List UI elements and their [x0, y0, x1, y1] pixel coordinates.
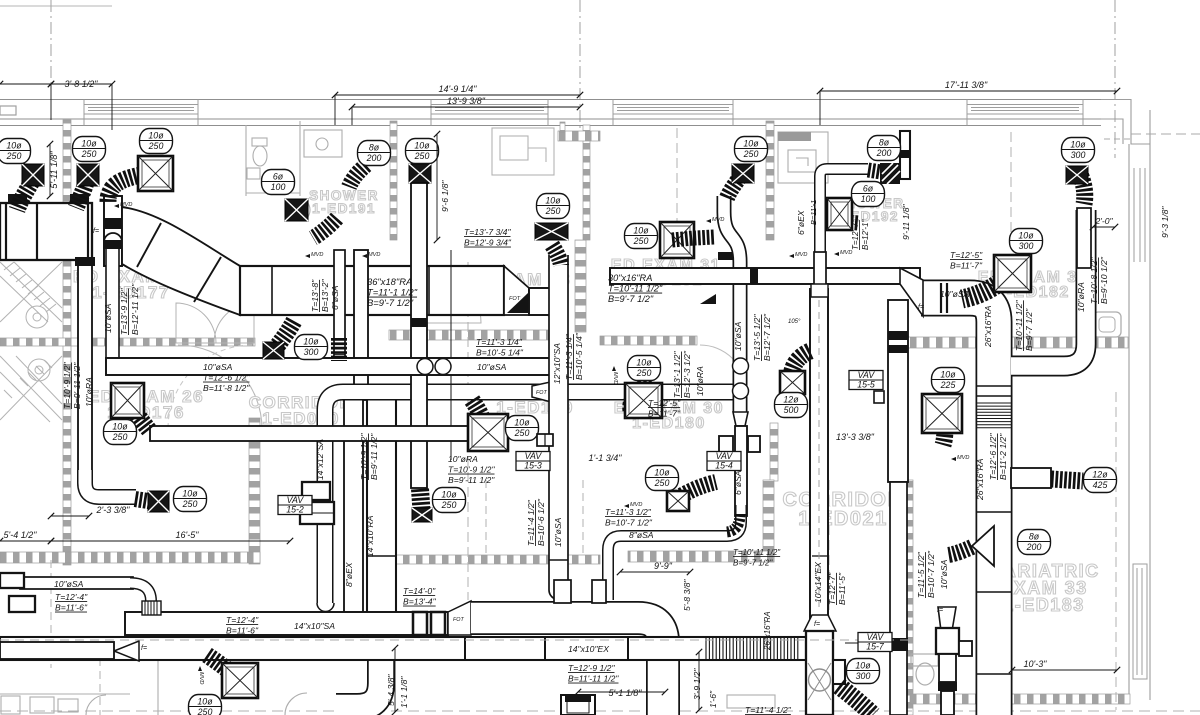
corridor north wall checker exam30 — [600, 336, 697, 345]
dimension vertical 5-4 3/8 and 1-1 1/8 — [394, 648, 396, 712]
svg-text:15-4: 15-4 — [715, 461, 733, 471]
svg-text:T=12'-6 1/2": T=12'-6 1/2" — [203, 373, 250, 383]
svg-text:T=14'-0": T=14'-0" — [403, 586, 436, 596]
svg-text:26"x16"RA: 26"x16"RA — [983, 305, 993, 348]
duct rounded bottom cap west riser — [317, 603, 334, 612]
svg-text:14"x10"SA: 14"x10"SA — [294, 621, 335, 631]
svg-text:B=9'-7 1/2": B=9'-7 1/2" — [1024, 308, 1034, 351]
wall checker vertical exam26 left — [63, 232, 71, 565]
duct line 8EX thin — [450, 250, 452, 460]
svg-text:10"øSA: 10"øSA — [733, 321, 743, 351]
svg-text:B=9'-7 1/2": B=9'-7 1/2" — [367, 297, 414, 308]
svg-text:10'-3": 10'-3" — [1024, 659, 1048, 669]
svg-text:6"øSA: 6"øSA — [330, 285, 340, 310]
bariatric south wall checker — [910, 694, 1130, 704]
dash line bariatric west — [1115, 392, 1117, 710]
duct FOT transition on branch — [532, 381, 555, 403]
svg-text:6"øEX: 6"øEX — [796, 210, 806, 235]
svg-text:1'-6": 1'-6" — [708, 690, 718, 708]
flex corner on 8-SA elbow — [726, 514, 740, 532]
svg-text:10ø: 10ø — [81, 138, 97, 148]
svg-text:200: 200 — [876, 148, 892, 158]
label 10-250 corridor019 — [189, 695, 222, 715]
VAV boxes cluster corridor-west — [302, 482, 330, 500]
duct branch supply with elbow down corridor-west — [325, 392, 736, 604]
svg-text:10"øRA: 10"øRA — [1076, 282, 1086, 312]
label 10-300 exam32 — [1010, 229, 1043, 254]
note rotated 26x16 south — [975, 458, 985, 501]
duct riser 8-EX center — [344, 396, 363, 640]
svg-text:f=: f= — [814, 621, 820, 628]
MVD flag west riser — [305, 252, 323, 258]
note rotated 10RA exam32 — [1076, 282, 1086, 312]
right wall centerline dashes — [1131, 133, 1200, 135]
grid dash corridor center vertical — [467, 262, 469, 600]
svg-text:250: 250 — [633, 236, 649, 246]
svg-text:T=10'-9 1/2": T=10'-9 1/2" — [448, 465, 495, 475]
note exam26 TB — [203, 362, 250, 393]
corridor south wall checker east — [628, 551, 774, 562]
note rotated bariatric T — [916, 551, 926, 598]
corridor double door arcs — [176, 303, 254, 343]
svg-text:B=10'-6 1/2": B=10'-6 1/2" — [536, 498, 546, 546]
svg-text:B=10'-5 1/4": B=10'-5 1/4" — [574, 332, 584, 380]
svg-text:T=12'-6 1/2": T=12'-6 1/2" — [988, 433, 998, 480]
corridor door swing arc into exam26 — [178, 345, 262, 429]
dimension 16-5 — [51, 540, 290, 542]
takeoff triangle bariatric — [972, 526, 994, 566]
note rotated 6SA T — [310, 279, 320, 312]
dimension 5-1 1/8 — [578, 691, 665, 693]
flex exam31 over diffuser edge — [672, 238, 694, 240]
svg-text:13'-9 3/8": 13'-9 3/8" — [447, 96, 486, 106]
room label SHOWER 192 — [829, 196, 904, 224]
crossing hump on riser — [104, 233, 122, 242]
svg-text:T=12'-4": T=12'-4" — [226, 615, 259, 625]
svg-text:B=10'-7 1/2": B=10'-7 1/2" — [605, 518, 653, 528]
svg-text:425: 425 — [1093, 480, 1108, 490]
svg-text:250: 250 — [441, 500, 457, 510]
VAV 15-4 — [707, 451, 741, 470]
svg-text:T=10'-9 1/2": T=10'-9 1/2" — [62, 362, 72, 409]
label 10-250 exam29 — [506, 416, 539, 441]
svg-text:B=9'-11 1/2": B=9'-11 1/2" — [72, 362, 82, 409]
svg-text:10ø: 10ø — [441, 489, 457, 499]
svg-text:5'-11 1/8": 5'-11 1/8" — [49, 151, 59, 189]
svg-text:T=11'-1 1/2": T=11'-1 1/2" — [367, 287, 418, 298]
toilet room fixtures top-left — [246, 121, 300, 196]
svg-text:B=9'-7 1/2": B=9'-7 1/2" — [733, 559, 773, 568]
window W4 — [967, 105, 1083, 115]
flex 12-425 — [1051, 479, 1083, 481]
flex shower192 grille — [868, 170, 881, 172]
label 8-200 shower192 — [868, 136, 901, 161]
dark FOB wedge below transition — [507, 293, 528, 313]
note exam32 TB — [950, 250, 983, 271]
diffuser exam27 C — [138, 156, 173, 191]
duct riser 12x10-SA exam28 — [549, 255, 568, 600]
svg-text:14"x10"EX: 14"x10"EX — [568, 644, 609, 654]
diffuser exam32 — [994, 255, 1031, 292]
svg-text:15-3: 15-3 — [524, 461, 542, 471]
label 10-250 exam27C — [140, 129, 173, 154]
flex exam31 horizontal — [676, 237, 714, 239]
svg-text:T=13'-8": T=13'-8" — [310, 279, 320, 312]
room label ED EXAM 29 — [477, 382, 593, 417]
wall jog near grid B — [558, 131, 600, 141]
note rotated exam28 south T — [526, 499, 536, 546]
diffuser corridor 10-300 — [263, 342, 284, 359]
shower191 fixtures — [304, 130, 342, 220]
right wall window column upper — [1134, 168, 1145, 262]
svg-text:MVD: MVD — [795, 252, 807, 258]
svg-text:250: 250 — [636, 368, 652, 378]
grid line B (dash-dot) — [579, 0, 581, 140]
flex exam28 riser top — [411, 168, 429, 184]
label 8-200 bariatric — [1018, 530, 1051, 555]
svg-text:MVD: MVD — [368, 252, 380, 258]
dimension 9-3 1/8 right edge — [1160, 206, 1170, 238]
wall checker exam30 lower right — [763, 480, 774, 562]
label 10-250 far west — [0, 139, 31, 164]
diffuser exam32 10-225 — [922, 394, 962, 433]
duct VAV15-5 riser east — [888, 300, 908, 482]
svg-text:8ø: 8ø — [879, 137, 890, 147]
svg-text:6ø: 6ø — [273, 171, 284, 181]
svg-text:10ø: 10ø — [182, 488, 198, 498]
svg-text:10"øRA: 10"øRA — [448, 454, 478, 464]
note rotated 26x16RA — [983, 305, 993, 348]
exam32 toilet fixture — [1093, 312, 1121, 337]
bariatric toilet fixture — [911, 654, 938, 685]
ribbed silencer on 26x16 riser — [977, 403, 1011, 428]
svg-text:T=10'-11 1/2": T=10'-11 1/2" — [733, 548, 781, 557]
top wall mullions — [83, 100, 85, 126]
MVD flag exam30 west — [612, 366, 618, 384]
svg-text:2'-0": 2'-0" — [1094, 216, 1113, 226]
duct branch exam26-29 horizontal — [150, 426, 468, 441]
svg-text:250: 250 — [112, 432, 128, 442]
diffuser exam30 12-500 — [780, 371, 805, 394]
svg-text:9'-9": 9'-9" — [654, 561, 673, 571]
duct exam32 supply riser top — [1077, 208, 1091, 268]
note exam28 riser TB — [464, 227, 512, 248]
svg-text:MVD: MVD — [120, 202, 132, 208]
svg-text:T=13'-5 1/2": T=13'-5 1/2" — [752, 314, 762, 361]
note rotated exam26 T — [62, 362, 72, 409]
svg-text:T=11'-3 1/4": T=11'-3 1/4" — [564, 333, 574, 380]
duct riser 10-SA exam27 — [106, 241, 119, 369]
duct riser center upper — [354, 250, 368, 400]
svg-text:250: 250 — [6, 151, 22, 161]
svg-text:10"øRA: 10"øRA — [84, 377, 94, 407]
window W3 — [613, 105, 733, 115]
svg-text:T=13'-9 1/2": T=13'-9 1/2" — [119, 288, 129, 335]
note rotated 6SA below VAV15-4 — [733, 470, 743, 495]
label 10-250 shower191 — [406, 139, 439, 164]
flex exam32 top — [1079, 172, 1085, 204]
svg-text:15-7: 15-7 — [866, 642, 885, 652]
note 30x16RA — [608, 273, 663, 304]
note rotated 10SA west — [103, 303, 113, 333]
grid line A (dash-dot) — [50, 0, 52, 84]
svg-text:250: 250 — [414, 151, 430, 161]
diffuser exam26 south — [148, 491, 169, 512]
duct stub to 12-425 flex — [1011, 468, 1051, 488]
svg-text:5'-4 1/2": 5'-4 1/2" — [4, 530, 38, 540]
note rotated 8EX — [344, 562, 354, 587]
label 10-250 exam28 — [537, 194, 570, 219]
flex exam27 A — [17, 174, 36, 210]
duct transition to 26x16 — [900, 268, 923, 316]
wall checker exam28 right — [575, 240, 586, 332]
svg-text:T=10'-11 1/2": T=10'-11 1/2" — [1014, 299, 1024, 351]
bottom center casework — [727, 695, 775, 708]
label 10-250 corridor west — [433, 488, 466, 513]
svg-text:10ø: 10ø — [303, 336, 319, 346]
flex bariatric southeast — [839, 686, 873, 715]
dash line grid-B south — [582, 480, 584, 556]
svg-text:300: 300 — [1071, 150, 1086, 160]
return grille bottom center — [561, 694, 595, 715]
wall checker exam30 right — [770, 423, 778, 481]
svg-text:250: 250 — [743, 149, 759, 159]
svg-text:10ø: 10ø — [514, 417, 530, 427]
room label ED EXAM 26 — [88, 387, 204, 422]
joint black bars on 30x16 at riser merge — [750, 268, 758, 284]
duct flare into corridor EX — [804, 615, 836, 631]
svg-text:f=: f= — [141, 645, 147, 652]
svg-text:500: 500 — [784, 405, 799, 415]
sidewall grille shower192 — [880, 163, 900, 184]
svg-text:10ø: 10ø — [743, 138, 759, 148]
note rotated 6EX shower192 — [796, 210, 806, 235]
svg-text:14"x12"SA: 14"x12"SA — [315, 439, 325, 480]
note corridor SA TB — [226, 615, 259, 636]
note EX TB — [568, 663, 619, 684]
svg-text:10"øSA: 10"øSA — [203, 362, 233, 372]
flex collar fittings on duct top — [8, 194, 27, 203]
svg-text:T=12'-7": T=12'-7" — [851, 219, 860, 250]
svg-text:10ø: 10ø — [940, 369, 956, 379]
svg-text:FOT: FOT — [536, 390, 547, 396]
diffuser corridor west roll — [412, 508, 432, 522]
equipment circle lower — [28, 359, 50, 381]
svg-text:36"x18"RA: 36"x18"RA — [367, 276, 412, 287]
duct 12x10 segment to riser — [529, 288, 566, 315]
svg-text:200: 200 — [1026, 542, 1042, 552]
right wall window column — [1133, 564, 1147, 679]
svg-text:3'-9 1/2": 3'-9 1/2" — [692, 668, 702, 700]
corridor south wall checker center — [392, 555, 600, 564]
note exam32 10SA — [940, 289, 970, 299]
takeoff box right of EX column — [833, 660, 845, 684]
diffuser exam27 A — [22, 164, 44, 186]
dash line corridor 021 center — [828, 480, 830, 632]
corridor EX expanding transition west — [114, 641, 139, 661]
svg-text:10ø: 10ø — [1070, 139, 1086, 149]
label 6-100 shower192 — [852, 182, 885, 207]
svg-text:1'-1 3/4": 1'-1 3/4" — [589, 453, 623, 463]
equipment circle upper — [26, 306, 48, 328]
room label CORRIDOR 1-ED021 — [783, 489, 904, 530]
diffuser exam31 — [660, 222, 694, 258]
svg-text:14'-9 1/4": 14'-9 1/4" — [439, 84, 478, 94]
duct transition triangle exam30 — [733, 412, 748, 426]
flex bariatric 8-200 — [948, 547, 972, 555]
MVD flag corridor019 — [198, 666, 204, 684]
top exterior wall upper line — [0, 99, 1101, 101]
flex exam32 diffuser — [962, 268, 1016, 299]
svg-text:9'-3 1/8": 9'-3 1/8" — [1160, 206, 1170, 238]
svg-text:300: 300 — [304, 347, 319, 357]
flex shower191 upper — [349, 165, 366, 187]
label 6-100 west — [262, 170, 295, 195]
label 10-250 exam30 — [735, 137, 768, 162]
svg-text:8ø: 8ø — [369, 142, 380, 152]
svg-text:15-5: 15-5 — [857, 380, 875, 390]
note 105 — [788, 319, 801, 325]
duct elbow RA to flex bottom-left — [85, 470, 136, 497]
dimension 5-11 1/8 — [49, 144, 51, 196]
svg-text:250: 250 — [81, 149, 97, 159]
svg-text:T=11'-4 1/2": T=11'-4 1/2" — [745, 705, 792, 715]
svg-text:10"øSA: 10"øSA — [553, 517, 563, 547]
dimension vertical 5-8 3/8 — [682, 579, 692, 611]
duct elbow 8-SA to corridor — [608, 505, 741, 600]
VAV 15-2 — [278, 495, 312, 514]
svg-text:T=11'-5 1/2": T=11'-5 1/2" — [916, 551, 926, 598]
note bottom-left TB — [55, 592, 88, 613]
diffuser 6-100 west — [285, 199, 308, 221]
room label BARIATRIC EXAM 33 — [988, 561, 1099, 615]
VAV 15-5 — [849, 370, 883, 389]
exam28 room arc — [468, 268, 560, 345]
label 10-250 exam30 bottom — [646, 466, 679, 491]
svg-text:8ø: 8ø — [1029, 531, 1040, 541]
svg-text:5'-1 1/8": 5'-1 1/8" — [609, 688, 643, 698]
note 14x10EX — [568, 644, 609, 654]
room label ED EXAM 32 — [978, 269, 1088, 301]
corridor north wall checker west — [0, 338, 255, 346]
svg-text:B=11'-1: B=11'-1 — [809, 200, 818, 225]
diffuser exam30 west — [625, 383, 662, 418]
svg-text:10ø: 10ø — [414, 140, 430, 150]
wall checker exam31 left — [766, 121, 774, 240]
note 10SA corridor — [477, 362, 507, 372]
right building corner jog — [1101, 100, 1150, 701]
flex exam30 bottom — [674, 482, 716, 500]
svg-text:5'-8 3/8": 5'-8 3/8" — [682, 579, 692, 611]
svg-text:9'-6 1/8": 9'-6 1/8" — [440, 180, 450, 212]
dark FOB wedge exam31 duct — [700, 294, 716, 304]
duct exam31 riser 10x14-EX main — [810, 289, 828, 630]
svg-text:10ø: 10ø — [148, 130, 164, 140]
svg-text:B=9'-10 1/2": B=9'-10 1/2" — [1099, 256, 1109, 304]
stair hatch upper-left — [0, 262, 62, 422]
svg-text:26"x16"RA: 26"x16"RA — [975, 458, 985, 501]
duct exam32 10-RA riser and elbow — [1011, 210, 1086, 366]
toilet room west wall — [245, 125, 247, 196]
svg-text:B=12'-3 1/2": B=12'-3 1/2" — [682, 350, 692, 398]
svg-text:f=: f= — [937, 607, 943, 614]
flared striped end bottom-left — [142, 601, 161, 615]
svg-text:T=12'-9 1/2": T=12'-9 1/2" — [568, 663, 615, 673]
dimension left edge — [0, 83, 51, 85]
svg-text:10ø: 10ø — [1018, 230, 1034, 240]
note T14-0 — [403, 586, 437, 607]
note rotated 26x16RA south — [763, 611, 772, 651]
flex corridor019 diffuser — [207, 655, 244, 685]
flex exam26 — [124, 396, 149, 430]
svg-text:5'-4 3/8": 5'-4 3/8" — [386, 674, 396, 706]
svg-text:10ø: 10ø — [654, 467, 670, 477]
exam30 door arc — [700, 345, 746, 391]
svg-text:B=11'-2 1/2": B=11'-2 1/2" — [998, 433, 1008, 480]
room label ED EXAM 28 — [455, 270, 571, 305]
svg-text:1-ED183: 1-ED183 — [1003, 595, 1085, 615]
duct main 10-SA corridor horizontal — [106, 358, 566, 375]
room label ED EXAM 27 — [73, 267, 189, 302]
VAV15-7 connection line — [845, 642, 893, 644]
bottom long dashed line — [0, 710, 1200, 712]
duct riser exam30 10-SA with offset jog — [724, 196, 740, 412]
diffuser exam27 B — [77, 164, 99, 186]
duct 26x16 main elbow and riser south — [921, 298, 994, 715]
dimension 2-0 — [1093, 226, 1115, 228]
svg-text:B=11'-5": B=11'-5" — [837, 572, 847, 605]
svg-text:10"øSA: 10"øSA — [103, 303, 113, 333]
flex exam28 southeast — [552, 245, 561, 265]
top exterior wall lower lines — [0, 118, 1101, 120]
room label CORRIDOR 1-ED019 — [285, 617, 390, 652]
shower191 closet upper-right — [492, 128, 554, 175]
svg-text:10ø: 10ø — [197, 696, 213, 706]
svg-text:T=12'-4": T=12'-4" — [55, 592, 88, 602]
note rotated bariatric 10SA — [939, 559, 949, 589]
svg-text:250: 250 — [514, 428, 530, 438]
flex exam30 west — [631, 382, 652, 411]
wall checker grid-B corridor — [583, 125, 590, 240]
dash centerline inside exam31 EX riser — [818, 300, 820, 612]
svg-text:MVD: MVD — [840, 250, 852, 256]
note rotated 14x10RA — [365, 515, 375, 557]
svg-text:B=11'-6": B=11'-6" — [55, 603, 88, 613]
svg-text:10ø: 10ø — [545, 195, 561, 205]
svg-text:MVD: MVD — [311, 252, 323, 258]
svg-text:B=12'-9 3/4": B=12'-9 3/4" — [464, 238, 512, 248]
grid line C (dash-dot) — [1114, 0, 1116, 158]
svg-text:MVD: MVD — [612, 372, 618, 384]
svg-text:10"x14"EX: 10"x14"EX — [813, 562, 823, 603]
svg-text:14"x10"RA: 14"x10"RA — [365, 515, 375, 557]
MVD flag exam30 riser — [706, 217, 724, 223]
note rotated exam27 T — [119, 288, 129, 335]
svg-text:T=10'-11 1/2": T=10'-11 1/2" — [608, 284, 663, 294]
note rotated shower192 T — [851, 219, 860, 250]
note rotated exam30 T — [752, 314, 762, 361]
riser stubs into corridor SA — [554, 580, 571, 603]
svg-text:T=11'-3 1/4": T=11'-3 1/4" — [476, 337, 523, 347]
duct corridor SA bottom horizontal — [125, 612, 448, 635]
dimension 9-6 1/8 line — [436, 134, 438, 240]
svg-text:1'-1 1/8": 1'-1 1/8" — [399, 676, 409, 708]
note rotated 12x10SA — [552, 343, 562, 384]
duct column below exam31 EX flare — [806, 631, 833, 715]
svg-text:10ø: 10ø — [112, 421, 128, 431]
svg-text:8"øEX: 8"øEX — [344, 562, 354, 587]
duct transition taller — [448, 601, 471, 635]
